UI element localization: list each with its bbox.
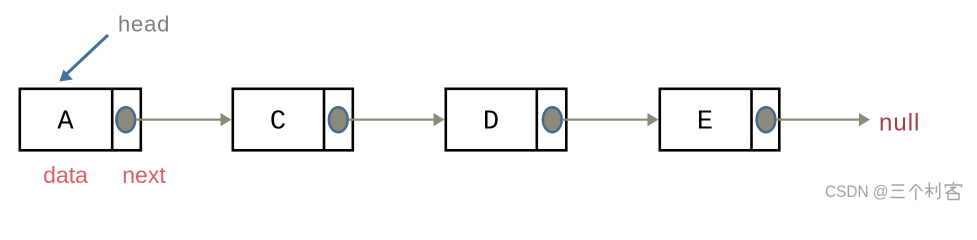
svg-text:null: null xyxy=(879,110,920,137)
node C box xyxy=(233,89,353,151)
svg-text:A: A xyxy=(57,108,74,138)
svg-text:head: head xyxy=(118,12,170,37)
node E next pointer dot xyxy=(757,107,776,132)
svg-text:data: data xyxy=(43,162,88,188)
watermark CJK glyphs (drawn) xyxy=(891,182,963,201)
head pointer arrow xyxy=(60,35,109,82)
svg-text:CSDN @: CSDN @ xyxy=(825,182,889,201)
node D box xyxy=(446,89,567,151)
glyph ci xyxy=(925,182,940,199)
wire arrow C to D xyxy=(349,113,445,126)
node A box xyxy=(20,89,141,151)
node E box xyxy=(660,89,780,151)
glyph ge xyxy=(910,184,923,200)
svg-text:D: D xyxy=(483,108,499,138)
svg-text:E: E xyxy=(697,108,713,138)
glyph san xyxy=(891,185,905,198)
wire arrow D to E xyxy=(563,113,659,126)
wire arrow A to C xyxy=(136,113,232,126)
node A next pointer dot xyxy=(116,107,135,132)
wire arrow E to null xyxy=(776,113,870,126)
node D next pointer dot xyxy=(543,107,562,132)
svg-text:next: next xyxy=(122,162,166,188)
glyph ke xyxy=(945,182,963,200)
node C next pointer dot xyxy=(329,107,348,132)
svg-text:C: C xyxy=(270,108,286,138)
